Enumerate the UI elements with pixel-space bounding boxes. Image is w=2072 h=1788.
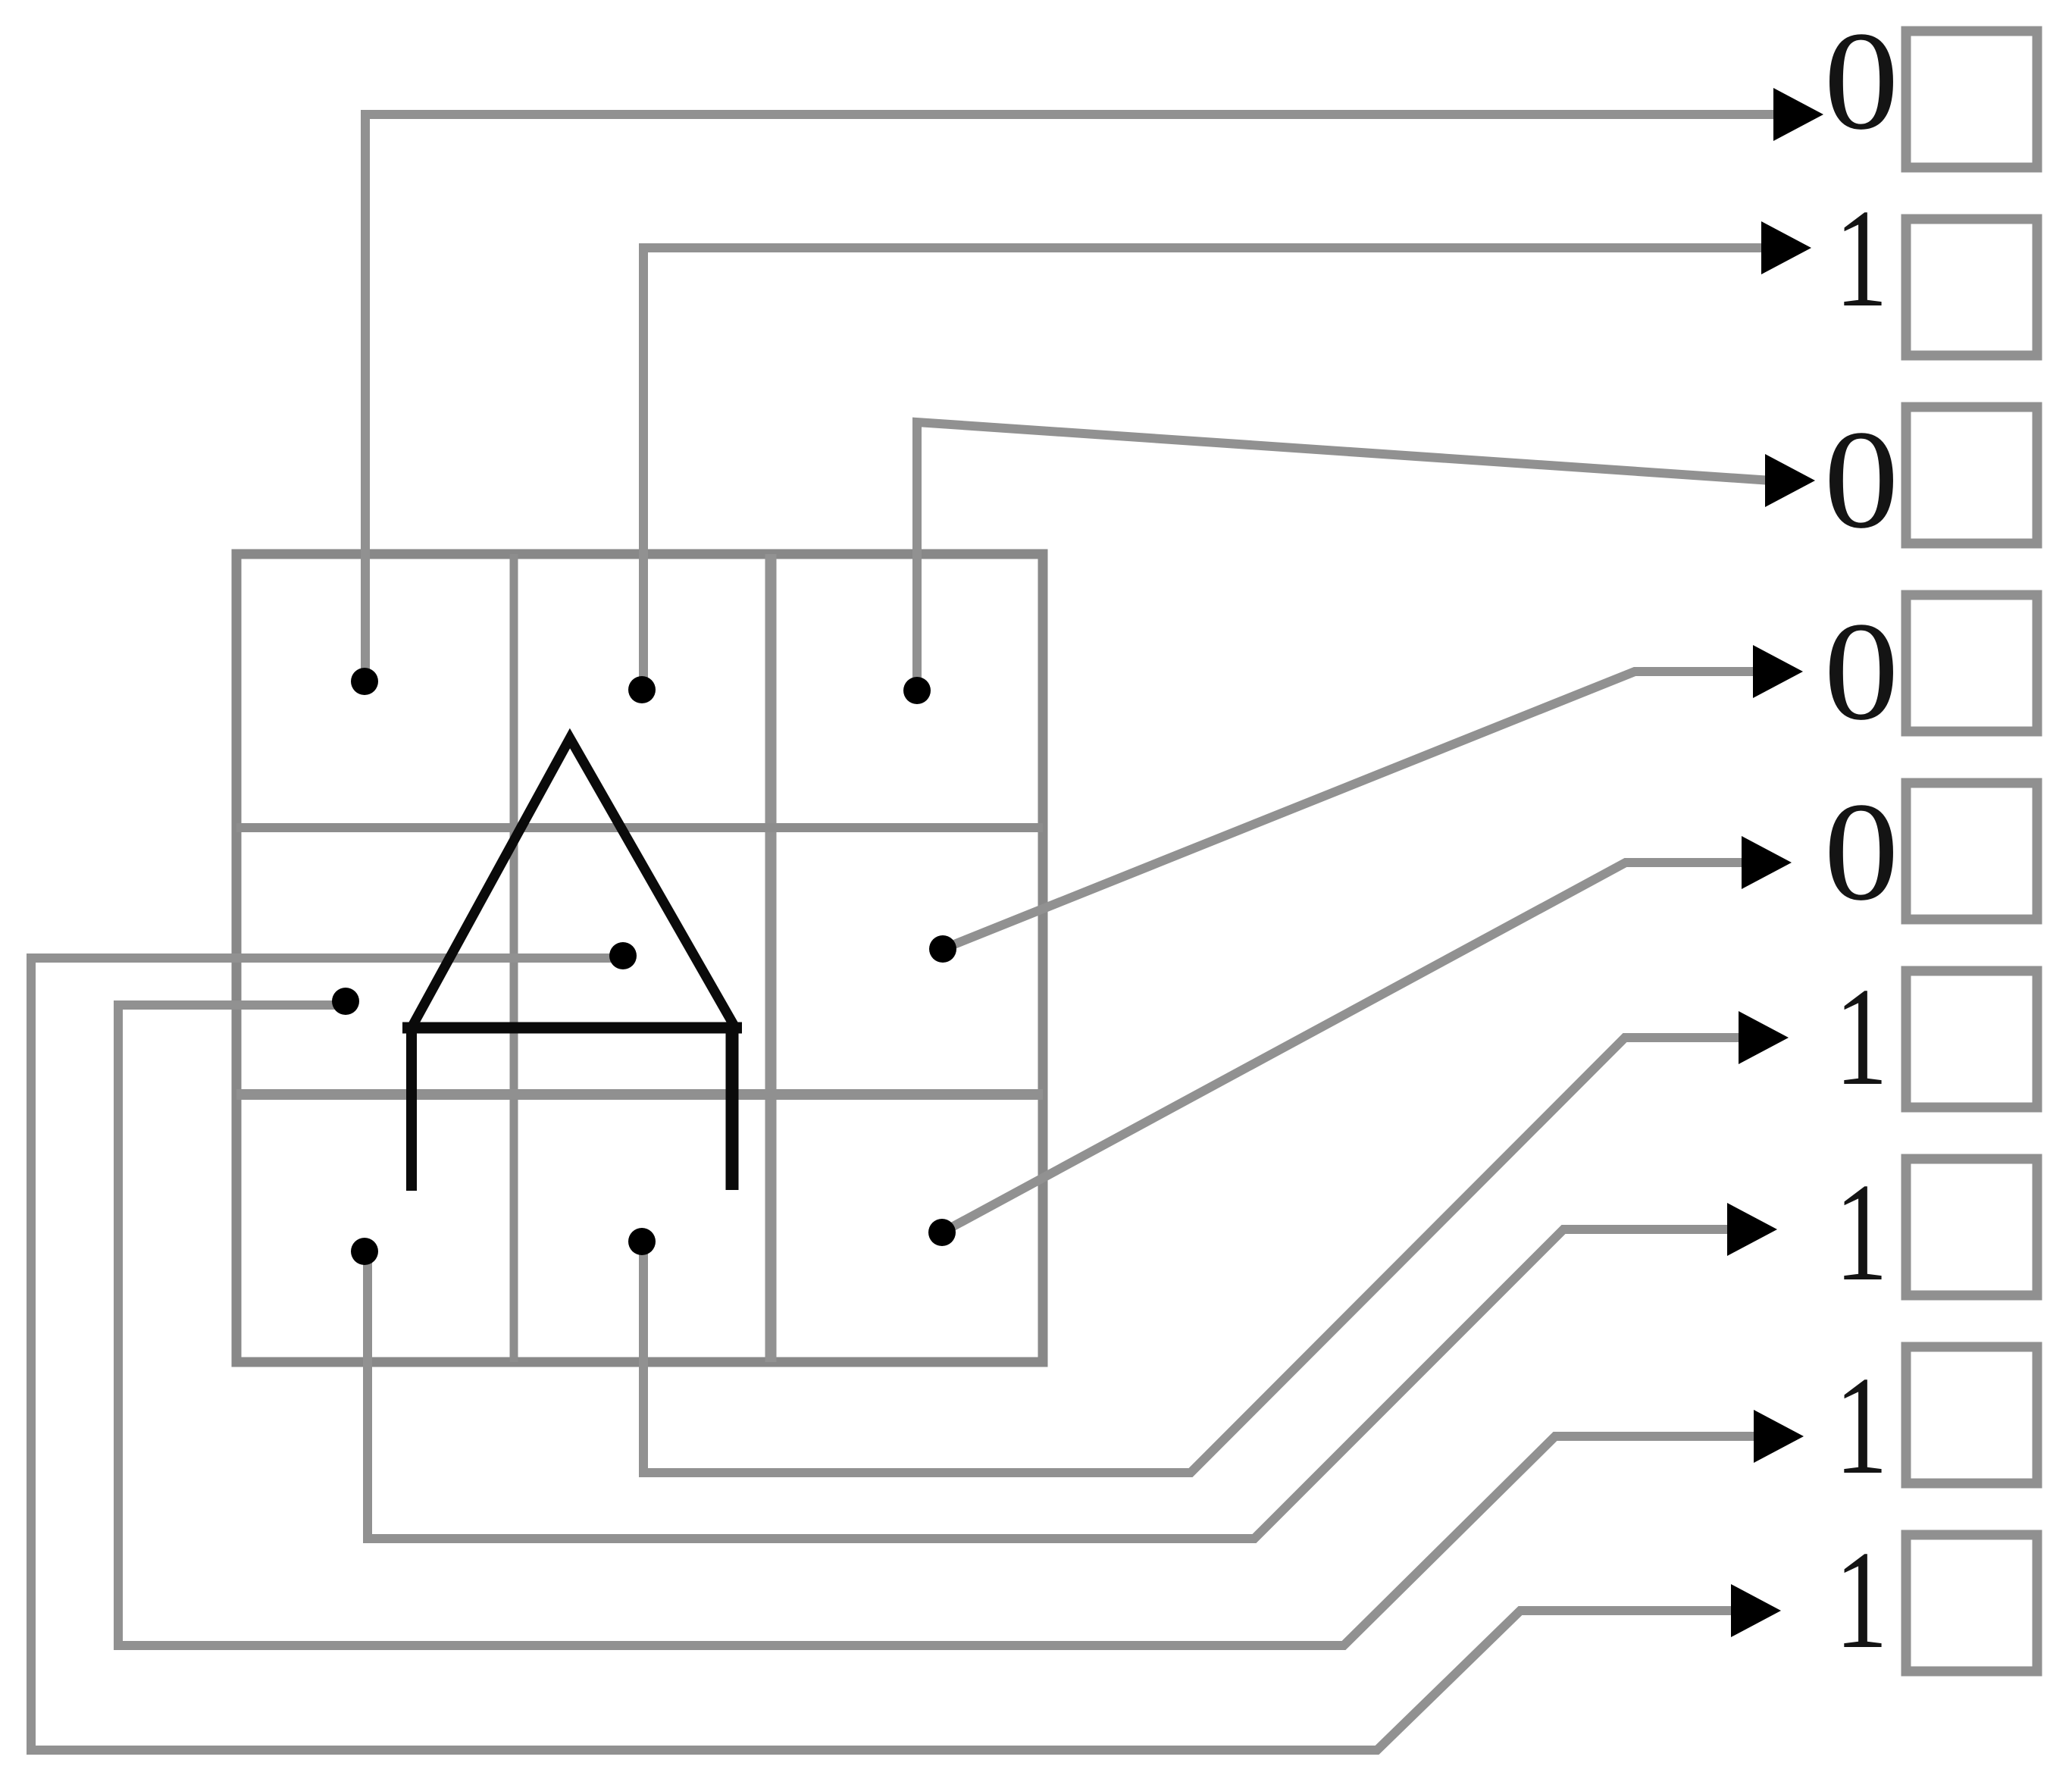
grid row line 1 (236, 823, 1043, 832)
A right leg (726, 1028, 739, 1190)
grid row line 2 (236, 1089, 1043, 1100)
svg-text:0: 0 (1824, 774, 1899, 930)
arrow to box6 (1739, 1011, 1789, 1064)
dot bottom-left cell (351, 1238, 378, 1265)
grid column line 1 (510, 554, 518, 1362)
wire TR dot to box3 (917, 422, 1771, 690)
arrow to box2 (1761, 221, 1811, 274)
box 3 (1906, 407, 2037, 543)
A crossbar (402, 1022, 742, 1034)
arrowheads (1727, 88, 1823, 1637)
dot top-right cell (903, 677, 931, 704)
arrow to box4 (1753, 645, 1803, 698)
pixel grid 3x3 (236, 554, 1043, 1362)
svg-text:0: 0 (1824, 3, 1899, 159)
dot center cell (609, 942, 637, 969)
dot top-left cell (351, 668, 378, 695)
A triangle sides (413, 738, 734, 1025)
grid column line 2 (765, 554, 777, 1362)
dot top-middle cell (628, 676, 656, 703)
svg-text:0: 0 (1824, 402, 1899, 558)
svg-text:1: 1 (1835, 959, 1888, 1115)
svg-text:0: 0 (1824, 593, 1899, 750)
wire C dot to box9 (31, 958, 1737, 1750)
wire TM dot to box2 (643, 248, 1767, 690)
output value boxes (1906, 31, 2037, 1671)
box 7 (1906, 1159, 2037, 1295)
arrow to box7 (1727, 1203, 1777, 1256)
arrow to box3 (1765, 454, 1815, 507)
A left leg (406, 1028, 417, 1191)
dot bottom-right cell (928, 1219, 956, 1246)
letter A glyph (402, 738, 742, 1191)
box 6 (1906, 971, 2037, 1107)
box 9 (1906, 1535, 2037, 1671)
sample dots (332, 668, 956, 1265)
arrow to box9 (1731, 1584, 1781, 1637)
box 5 (1906, 783, 2037, 919)
wire MR dot to box4 (943, 672, 1759, 949)
wire BM dot to box6 (643, 1038, 1745, 1473)
svg-text:1: 1 (1835, 1522, 1888, 1678)
arrow to box1 (1773, 88, 1823, 141)
value digits (1824, 3, 1899, 1678)
svg-text:1: 1 (1835, 1154, 1888, 1310)
arrow to box8 (1754, 1410, 1804, 1463)
wire ML dot to box8 (118, 1005, 1760, 1646)
box 1 (1906, 31, 2037, 168)
wire TL dot to box1 (365, 114, 1779, 681)
wire BR dot to box5 (942, 863, 1748, 1232)
dot bottom-middle cell (628, 1228, 656, 1255)
dot middle-right cell (929, 935, 956, 963)
svg-text:1: 1 (1835, 1348, 1888, 1504)
svg-text:1: 1 (1835, 180, 1888, 337)
wire BL dot to box7 (368, 1229, 1733, 1539)
dot middle-left cell (332, 988, 359, 1015)
box 4 (1906, 595, 2037, 731)
grid outer border (236, 554, 1043, 1362)
box 2 (1906, 219, 2037, 355)
box 8 (1906, 1347, 2037, 1483)
arrow to box5 (1742, 836, 1792, 889)
